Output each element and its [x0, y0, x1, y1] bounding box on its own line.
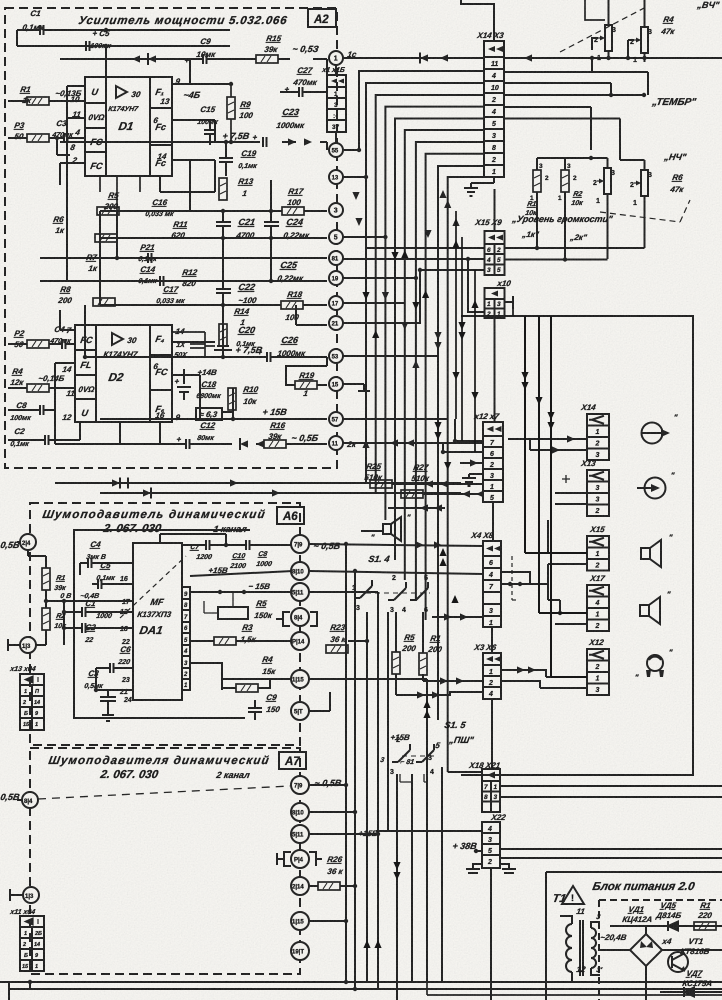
wire A7 node1|15 right: [309, 920, 346, 922]
wire riser x525: [524, 316, 526, 553]
right enclosure box: [461, 316, 693, 775]
wire D1 bottom pins: [100, 176, 140, 211]
S1.4 contact 3: [416, 588, 428, 600]
wire y494 to X12/X7: [423, 493, 483, 495]
wire resistor bottoms to rows: [537, 192, 645, 259]
node 55: [329, 143, 343, 157]
node 17: [329, 296, 343, 310]
wire A7 node5|11 right: [309, 833, 378, 835]
block A2 dashed border: [5, 8, 337, 468]
wire A7 node7|9 right: [309, 784, 346, 786]
potentiometer R5 low1: [597, 168, 611, 194]
wire node21 stub: [343, 270, 484, 323]
wires S1.4 to resistors: [396, 612, 423, 695]
wire fan line 7: [416, 142, 484, 601]
chevron arrows on verticals: [352, 192, 359, 200]
wire x336 link: [335, 65, 337, 143]
S1.5 contact 2: [422, 750, 434, 762]
S1.4 contact 1: [360, 586, 372, 598]
wire node7|9 right: [309, 544, 483, 546]
block A6 dashed border: [30, 503, 300, 745]
wire row y211: [100, 210, 327, 212]
wire D2 bottom pins: [120, 422, 160, 444]
wire top entry to X14/X3: [461, 0, 494, 41]
wire riser x513 from X15/X9 ground down: [512, 309, 514, 316]
capacitor C23 symbol: [263, 137, 267, 147]
node 8|10 A7: [291, 803, 309, 821]
wire X4/X8 bottom to X3/X6: [491, 627, 493, 653]
node 5|11 A6: [291, 583, 309, 601]
dashed mech link low pots: [600, 212, 680, 222]
wire node5 stub: [343, 236, 385, 238]
wire top feed x585: [585, 0, 605, 20]
joins to X15 X17 X12: [525, 553, 587, 677]
wire node53 stub: [343, 355, 438, 357]
block A7 tag box: [279, 752, 306, 769]
wire vertical x327 riser: [322, 59, 327, 150]
resistor on row 641: [214, 637, 236, 645]
wire R1 row y101: [8, 100, 85, 102]
diode pair on y142: [288, 138, 296, 145]
wire X12/X7 bottom down: [492, 502, 494, 541]
node 7|9 A7: [291, 776, 309, 794]
wire row y258: [40, 257, 327, 259]
wire bottom bus 2: [9, 988, 722, 990]
wire vertical x117: [100, 211, 117, 305]
block A7 dashed border: [30, 748, 300, 974]
wire to X15 cells: [548, 520, 587, 600]
vertical rails right of A6: [346, 544, 355, 989]
headphone icon: [647, 655, 663, 671]
verticals to bottom: [397, 767, 442, 1000]
inner solid box A6: [74, 530, 250, 718]
potentiometer R4 top2: [634, 27, 648, 53]
output jack icon: [642, 423, 669, 444]
wire row 259 right extension: [505, 259, 608, 261]
wire node81 long row: [343, 259, 484, 312]
diode pair on y59: [132, 55, 140, 62]
wire D1 right pins: [172, 59, 231, 192]
node 53: [329, 349, 343, 363]
op-amp D1 К174УН7: [85, 77, 172, 176]
node 13: [329, 170, 343, 184]
wire riser x462: [461, 237, 463, 441]
diode arrows on y58: [420, 54, 428, 61]
power supply inner dashed border: [599, 900, 722, 1000]
wire row y95: [504, 94, 644, 96]
ground right of X10: [505, 296, 514, 309]
wire node57 stub: [343, 418, 448, 420]
wire row y59: [60, 58, 327, 60]
speaker icon right 2: [640, 597, 660, 624]
wire X22 bottom down: [490, 868, 492, 1000]
node 1|15 A7: [291, 912, 309, 930]
wire vertical x67: [66, 118, 68, 281]
ground brackets node 8|4: [276, 612, 317, 626]
wire fan line 10: [448, 177, 484, 772]
resistor R3 1,5к box: [218, 607, 248, 619]
wire row y238: [100, 237, 327, 239]
wire X3/X6 bottom down: [491, 699, 493, 769]
node 5: [329, 230, 343, 244]
wire row y419 +15В: [100, 418, 327, 420]
node 1|15 A6: [291, 670, 309, 688]
wire fan line 2: [366, 83, 484, 483]
wire node11 row to X12/X7: [343, 442, 484, 444]
wire y58 links: [592, 40, 634, 72]
wire row y281: [40, 280, 327, 282]
node 7|9 A6: [291, 535, 309, 553]
node Р|4 A7: [291, 850, 309, 868]
op-amp D2 К174УН7: [75, 325, 172, 422]
wire fan line 5: [395, 119, 484, 561]
wire to X14 cells: [508, 439, 587, 450]
wire riser x475: [474, 270, 476, 452]
potentiometer R3 top1: [598, 25, 612, 51]
node 1: [329, 51, 343, 65]
node 3: [329, 203, 343, 217]
wire row 248 right extension: [505, 247, 645, 249]
wire fan line 1: [359, 71, 484, 150]
node 8|4 A6: [291, 608, 309, 626]
wire y681 arrows: [423, 680, 483, 682]
IC DA1 К137ХП3: [133, 543, 190, 700]
power supply border: [546, 872, 722, 1000]
wire R3 row y138: [8, 128, 85, 138]
wire drop x591: [504, 107, 591, 150]
wire riser x551: [550, 316, 552, 677]
wire node8|10 right: [309, 571, 483, 574]
potentiometer R6 low2: [634, 170, 648, 196]
node 57: [329, 412, 343, 426]
wire bottom bus 3 right: [427, 994, 722, 996]
wire stub right of D2: [172, 332, 205, 357]
node 19: [329, 271, 343, 285]
wire +7,5В row y142: [60, 141, 327, 143]
wire row y72: [504, 72, 648, 95]
wire nodeР|14 right: [348, 640, 367, 642]
wire D2 right pins: [172, 342, 215, 419]
DA1 right pin numbers: [183, 592, 188, 689]
dashed shield right of X4/X8: [512, 556, 519, 600]
wire stubs D2 left: [55, 310, 75, 410]
wires right of X4/X8: [501, 583, 548, 585]
wire fan line 6: [405, 130, 484, 580]
wire row y444: [55, 443, 327, 445]
junction dots under pots: [590, 56, 594, 60]
dashed link S1.5: [402, 755, 436, 757]
dashed mech link S1.4: [366, 592, 430, 594]
node 2|14 A7: [291, 877, 309, 895]
node 81: [329, 251, 343, 265]
wire riser C18: [184, 369, 233, 419]
ground below X14/X3: [471, 177, 494, 188]
wire node15 stub: [343, 384, 370, 391]
wire riser x456: [455, 211, 457, 419]
wire mid bus 1: [55, 482, 461, 484]
wire y695 arrows: [396, 692, 483, 695]
node Р|14 A6: [291, 632, 309, 650]
S1.5 wires down: [400, 774, 427, 782]
ground brackets node Р|4 A7: [277, 852, 322, 866]
wire vertical x190: [160, 160, 215, 211]
wire pin17 row ~0,4В: [46, 600, 133, 602]
diode arrows row 439: [552, 446, 560, 453]
node 19|Т A7: [291, 942, 309, 960]
wire y617 arrows: [432, 616, 483, 618]
speaker icon right 1: [641, 540, 661, 567]
transformer T1 windings: [566, 920, 596, 976]
node 1|3 left: [20, 637, 36, 653]
node 15: [329, 377, 343, 391]
box 6,3: [196, 408, 222, 420]
transformer pins: [560, 916, 600, 982]
wire vertical x223: [223, 180, 271, 357]
diode VD5 symbol on wire y926: [646, 925, 722, 927]
wire fan line 8: [426, 154, 484, 620]
wire y484 to X12/X7: [392, 483, 483, 485]
wire y58 right of strip: [504, 57, 722, 59]
chevrons near X4/X8: [439, 548, 446, 556]
input jack icon: [637, 478, 666, 499]
wire resistor tops: [537, 158, 565, 170]
bottom-left vertical stubs: [9, 982, 30, 1000]
wire vertical feeds to pots: [609, 0, 645, 8]
wire row y305: [100, 304, 327, 306]
wire top row y30: [17, 30, 230, 46]
wire x85 riser to +7,5 row: [84, 305, 86, 357]
wire fan line 3: [376, 95, 484, 493]
resistor R1 10к vertical: [533, 170, 541, 192]
S1.5 contact 1: [398, 750, 410, 762]
wire to X17 cells: [548, 600, 587, 624]
wire row y357 +7,5В: [85, 356, 327, 358]
block A2 tag box: [308, 9, 336, 27]
wire node1 to X14/X3: [343, 57, 484, 59]
wire stubs D1 left: [60, 86, 85, 185]
node 8|10 A6: [291, 562, 309, 580]
wire mid bus 2: [100, 492, 461, 494]
wire node17 stub: [343, 302, 405, 304]
dashed mech link top pots: [560, 6, 648, 52]
wire node55 stub: [343, 149, 359, 151]
wire A7 node8|10 right: [309, 811, 355, 813]
resistor R2 10к vertical: [561, 170, 569, 192]
S1.4 contact 2: [394, 588, 406, 600]
wire X10 down: [494, 318, 496, 422]
wire fan line 4: [385, 107, 484, 520]
block A6 tag box: [277, 507, 304, 524]
wire row y344: [8, 343, 75, 345]
wire fan line 9: [438, 166, 484, 720]
DA1 left pin numbers: [119, 576, 132, 704]
wire D1 top to y46: [105, 46, 107, 77]
wire node19 stub: [343, 277, 416, 279]
wire node1|15 right: [309, 679, 427, 774]
node 5|Т A6: [291, 702, 309, 720]
ground below-left X12/X7: [469, 474, 483, 478]
wires left of X12/X7: [443, 419, 483, 452]
node 21: [329, 316, 343, 330]
wire x55 riser lower: [54, 410, 56, 444]
wires right of X18/X21: [500, 786, 722, 858]
warning triangle: [562, 886, 584, 904]
small icons left of X13: [562, 475, 570, 483]
wire row y82: [504, 83, 611, 95]
chevrons upper bundle: [391, 252, 398, 260]
wire row 679 loop: [190, 663, 293, 690]
wire top row to node 7|9: [182, 544, 293, 546]
wires right of X3/X6 to X12 right: [501, 670, 546, 688]
left long verticals lower half: [367, 612, 388, 989]
wire node5|11 right: [309, 592, 378, 617]
wire row y325: [296, 305, 327, 325]
grounds flanking X22 bottom: [473, 864, 509, 869]
wire bottom bus 1: [0, 981, 722, 983]
wire node5|Т stub: [309, 692, 330, 711]
diode pair y444: [240, 440, 248, 447]
node 1|3 A7 left: [23, 887, 39, 903]
dashed ghost wire A7: [38, 786, 290, 799]
node 5|11 A7: [291, 825, 309, 843]
speaker icon mid: [383, 517, 401, 541]
node 11: [329, 436, 343, 450]
